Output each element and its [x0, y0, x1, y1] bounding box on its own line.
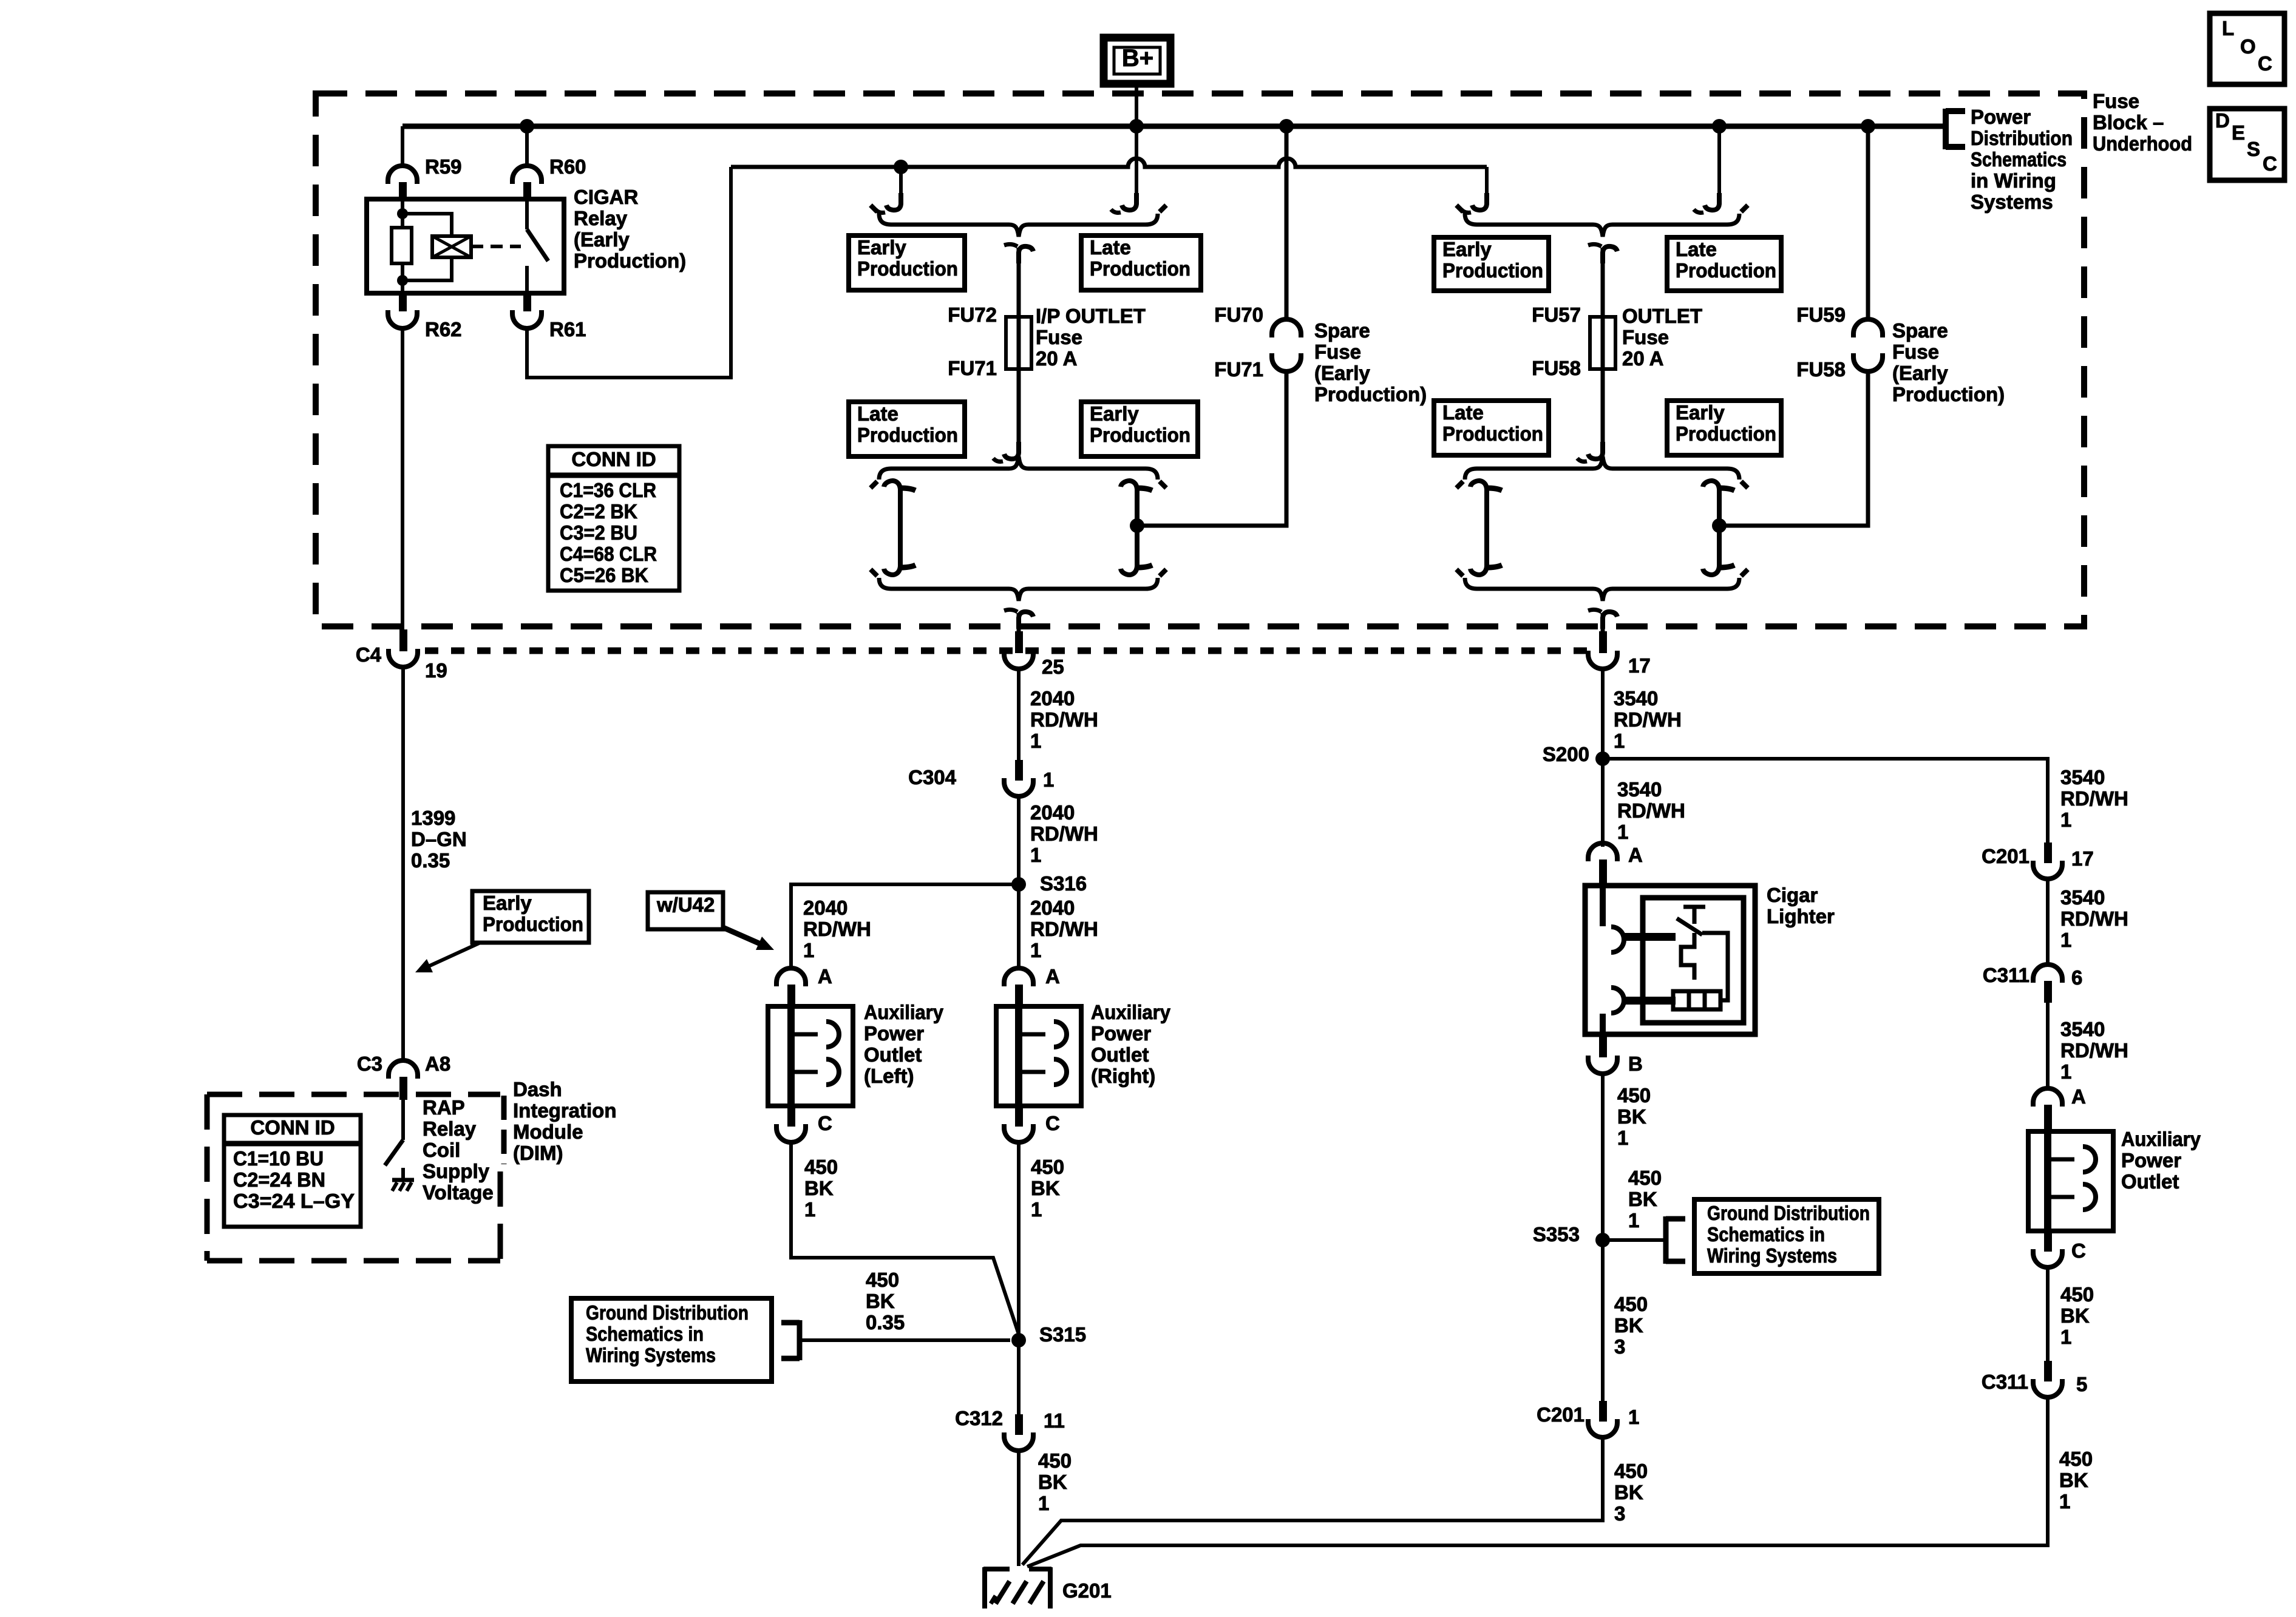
- svg-text:Fuse: Fuse: [1892, 341, 1939, 363]
- wire S353 to C201: [1601, 1240, 1605, 1401]
- wire C311 to outlet: [2046, 1003, 2050, 1088]
- svg-text:5: 5: [2076, 1373, 2087, 1395]
- svg-text:FU71: FU71: [948, 357, 997, 379]
- svg-text:BK: BK: [2059, 1469, 2088, 1491]
- fuse block underhood dashed border: [316, 93, 2084, 626]
- svg-text:Wiring Systems: Wiring Systems: [1707, 1244, 1837, 1267]
- svg-text:11: 11: [1044, 1409, 1065, 1432]
- svg-text:RD/WH: RD/WH: [1030, 822, 1098, 845]
- relay coil winding symbol: [432, 236, 471, 257]
- connector fuse block pin 17: [1599, 631, 1607, 653]
- svg-text:Production: Production: [1676, 422, 1776, 445]
- svg-text:BK: BK: [1617, 1105, 1646, 1128]
- svg-text:1: 1: [2060, 929, 2071, 951]
- svg-text:17: 17: [2071, 847, 2094, 870]
- junction coil top: [397, 208, 408, 219]
- svg-text:Production: Production: [1442, 259, 1543, 282]
- svg-text:(DIM): (DIM): [513, 1142, 563, 1164]
- svg-text:Early: Early: [1090, 402, 1139, 425]
- svg-text:Cigar: Cigar: [1767, 884, 1818, 906]
- svg-text:Fuse: Fuse: [2093, 90, 2139, 112]
- svg-text:B+: B+: [1122, 45, 1153, 72]
- svg-text:Dash: Dash: [513, 1078, 562, 1100]
- wire S200 to cigar lighter: [1601, 759, 1605, 847]
- wire C201 to C311: [2046, 880, 2050, 964]
- svg-text:BK: BK: [1031, 1177, 1060, 1199]
- svg-text:450: 450: [1628, 1167, 1662, 1189]
- svg-text:Production): Production): [1892, 383, 2005, 405]
- svg-text:(Early: (Early: [1892, 362, 1948, 384]
- svg-text:Systems: Systems: [1971, 191, 2053, 213]
- splice S315: [1011, 1333, 1026, 1347]
- svg-text:450: 450: [2059, 1448, 2093, 1470]
- svg-text:(Left): (Left): [864, 1065, 914, 1087]
- bracket DIM label: [501, 1096, 507, 1164]
- svg-text:C304: C304: [908, 766, 957, 788]
- svg-text:Outlet: Outlet: [864, 1043, 922, 1066]
- svg-text:A: A: [1628, 844, 1643, 866]
- svg-text:1: 1: [1031, 1198, 1042, 1221]
- wire C304 to S316: [1017, 797, 1021, 884]
- svg-text:RD/WH: RD/WH: [1617, 799, 1685, 822]
- svg-text:1: 1: [1628, 1406, 1639, 1428]
- svg-text:C1=36 CLR: C1=36 CLR: [560, 479, 656, 501]
- fuse output link: [1017, 369, 1021, 450]
- svg-text:C3: C3: [357, 1053, 382, 1075]
- svg-text:17: 17: [1628, 654, 1651, 677]
- svg-text:Production): Production): [1314, 383, 1427, 405]
- fuse block output link: [1603, 612, 1617, 629]
- svg-text:C311: C311: [1983, 964, 2029, 986]
- svg-text:E: E: [2232, 121, 2245, 144]
- connector R59: [388, 166, 417, 184]
- svg-text:2040: 2040: [803, 897, 847, 919]
- svg-text:Production: Production: [1090, 257, 1190, 280]
- svg-text:FU70: FU70: [1214, 303, 1263, 326]
- svg-text:Block –: Block –: [2093, 111, 2164, 134]
- svg-text:(Early: (Early: [574, 228, 630, 251]
- connector C left outlet: [787, 1106, 795, 1127]
- svg-text:C: C: [818, 1112, 832, 1134]
- auxiliary power outlet: [2028, 1131, 2113, 1231]
- svg-text:1: 1: [2059, 1490, 2070, 1513]
- option bar left: [1484, 486, 1489, 570]
- fuse feed link: [1603, 246, 1617, 263]
- svg-text:C2=24 BN: C2=24 BN: [233, 1168, 325, 1191]
- svg-text:R61: R61: [549, 318, 586, 341]
- callout Ground Distribution Schematics in Wiring Systems: [1694, 1199, 1879, 1273]
- svg-text:C5=26 BK: C5=26 BK: [560, 564, 648, 586]
- power feed B+ symbol: [1104, 38, 1170, 84]
- label Late Production option box lower: [849, 402, 965, 456]
- svg-text:FU57: FU57: [1532, 303, 1581, 326]
- svg-text:D–GN: D–GN: [411, 828, 467, 850]
- svg-text:450: 450: [1617, 1084, 1651, 1107]
- connector C304 pin 1: [1015, 760, 1023, 781]
- svg-text:C4=68 CLR: C4=68 CLR: [560, 543, 657, 565]
- svg-text:Production: Production: [857, 257, 958, 280]
- wire C201 to G201: [1022, 1438, 1603, 1565]
- svg-text:BK: BK: [804, 1177, 834, 1199]
- svg-text:3: 3: [1614, 1502, 1625, 1525]
- wire bus to relay R59: [401, 126, 404, 165]
- svg-text:Schematics in: Schematics in: [1707, 1223, 1825, 1246]
- option brace top: [1465, 214, 1739, 237]
- wire battery feed bus: [402, 124, 1946, 129]
- option bar right: [1135, 486, 1140, 570]
- svg-text:Outlet: Outlet: [2121, 1170, 2179, 1193]
- relay coil feed wire: [401, 199, 404, 228]
- auxiliary power outlet right: [996, 1006, 1081, 1106]
- svg-text:RD/WH: RD/WH: [2060, 787, 2128, 810]
- svg-text:Production): Production): [574, 249, 686, 272]
- svg-text:1: 1: [1614, 730, 1625, 752]
- wire left outlet ground to S315: [791, 1143, 1019, 1334]
- svg-text:450: 450: [1614, 1293, 1648, 1315]
- connector A auxiliary power outlet: [2033, 1088, 2062, 1107]
- connector boundary dotted line: [425, 648, 1588, 654]
- svg-text:6: 6: [2071, 966, 2082, 989]
- fuse FU57: [1590, 317, 1615, 369]
- svg-text:R59: R59: [425, 155, 462, 178]
- svg-text:0.35: 0.35: [411, 849, 450, 872]
- label Early Production option box lower: [1081, 402, 1198, 456]
- svg-text:Late: Late: [1676, 238, 1717, 260]
- svg-text:C: C: [2258, 52, 2272, 75]
- svg-text:Spare: Spare: [1892, 319, 1948, 342]
- wire drop to right fuse block early feed: [1485, 167, 1489, 202]
- svg-text:Early: Early: [857, 236, 906, 259]
- svg-text:450: 450: [2060, 1283, 2094, 1306]
- svg-text:1: 1: [1628, 1209, 1639, 1232]
- off-page bracket to Power Distribution: [1946, 109, 1965, 149]
- auxiliary power outlet left: [768, 1006, 853, 1106]
- svg-text:1: 1: [1043, 768, 1054, 791]
- svg-text:L: L: [2222, 17, 2234, 39]
- svg-text:A: A: [818, 965, 832, 988]
- svg-text:1399: 1399: [411, 807, 455, 829]
- fuse output link: [1601, 369, 1605, 450]
- svg-text:C4: C4: [356, 643, 382, 666]
- wire S316 to right outlet: [1017, 884, 1021, 968]
- svg-text:I/P OUTLET: I/P OUTLET: [1036, 305, 1146, 327]
- svg-text:Power: Power: [1971, 106, 2031, 128]
- svg-text:C: C: [2071, 1239, 2086, 1262]
- svg-text:Outlet: Outlet: [1091, 1043, 1149, 1066]
- wire 17 to S200: [1601, 670, 1605, 759]
- connector B cigar lighter: [1599, 1034, 1607, 1057]
- svg-text:BK: BK: [1038, 1471, 1067, 1493]
- svg-text:Production: Production: [1442, 422, 1543, 445]
- connector R61: [523, 293, 531, 311]
- svg-text:S315: S315: [1039, 1323, 1086, 1346]
- svg-text:S316: S316: [1040, 872, 1087, 895]
- wire C312 to G201: [1017, 1451, 1021, 1566]
- connector C4 pin 19: [399, 629, 407, 651]
- connector R60: [512, 166, 542, 184]
- junction coil bottom: [397, 275, 408, 286]
- wire S315 to C312: [1017, 1340, 1021, 1414]
- connector C312 pin 11: [1015, 1414, 1023, 1435]
- svg-text:CONN ID: CONN ID: [571, 448, 656, 470]
- label Early Production option box lower: [1667, 401, 1781, 455]
- svg-text:1: 1: [1038, 1492, 1049, 1514]
- svg-text:Production: Production: [1090, 424, 1190, 446]
- svg-text:Relay: Relay: [423, 1117, 477, 1140]
- svg-text:Late: Late: [857, 402, 898, 425]
- svg-text:RD/WH: RD/WH: [2060, 907, 2128, 930]
- svg-text:Auxiliary: Auxiliary: [1091, 1001, 1171, 1023]
- svg-text:S353: S353: [1533, 1223, 1580, 1246]
- option brace mid: [879, 456, 1158, 480]
- label Late Production option box lower: [1434, 401, 1549, 455]
- wire R61 switched output to bus2: [527, 167, 731, 378]
- wire drop to left fuse block early feed: [899, 167, 903, 202]
- wire bus drop to right fuse block late feed: [1717, 126, 1721, 202]
- connector C311 pin 5: [2044, 1361, 2052, 1381]
- relay CIGAR Relay box: [367, 199, 564, 293]
- svg-text:450: 450: [1031, 1156, 1064, 1178]
- svg-text:Coil: Coil: [423, 1139, 460, 1161]
- svg-text:w/U42: w/U42: [656, 893, 715, 916]
- svg-text:C: C: [2263, 152, 2277, 175]
- svg-text:Auxiliary: Auxiliary: [2121, 1128, 2201, 1150]
- svg-text:1: 1: [2060, 1326, 2071, 1348]
- connector A cigar lighter: [1588, 843, 1617, 861]
- svg-text:1: 1: [2060, 808, 2071, 831]
- svg-text:C3=24 L–GY: C3=24 L–GY: [233, 1190, 355, 1212]
- dashed actuation link: [471, 245, 521, 248]
- wire B+ drop to left fuse block late feed: [1135, 126, 1138, 202]
- svg-text:Schematics in: Schematics in: [586, 1323, 704, 1345]
- callout w/U42: [648, 892, 723, 929]
- svg-text:19: 19: [425, 659, 447, 682]
- wire S200 branch right: [1603, 759, 2048, 842]
- junction right fuse drop: [1712, 119, 1727, 134]
- arrow w/U42 callout: [723, 927, 764, 946]
- wire bus to spare fuse FU70: [1285, 126, 1289, 320]
- option brace bottom: [1465, 578, 1739, 601]
- svg-text:3540: 3540: [1617, 778, 1662, 801]
- svg-text:FU71: FU71: [1214, 358, 1263, 381]
- option bar left: [898, 486, 903, 570]
- svg-text:20 A: 20 A: [1036, 347, 1077, 370]
- connector C201 pin 1: [1599, 1401, 1607, 1422]
- connector C311 pin 6: [2033, 964, 2062, 983]
- wire R62 to C4: [401, 330, 404, 629]
- svg-text:BK: BK: [2060, 1304, 2090, 1327]
- svg-text:OUTLET: OUTLET: [1622, 305, 1702, 327]
- svg-text:3540: 3540: [2060, 1018, 2105, 1040]
- wire bus to spare fuse FU59: [1866, 126, 1870, 320]
- cigar lighter element internals: [1683, 907, 1705, 924]
- svg-text:25: 25: [1042, 656, 1064, 678]
- svg-text:Lighter: Lighter: [1767, 905, 1835, 927]
- wire C311 to G201: [1027, 1398, 2048, 1567]
- connector C3 pin A8: [389, 1060, 418, 1079]
- resistor relay coil suppression: [392, 228, 412, 263]
- connector A right outlet: [1004, 968, 1033, 986]
- connector A left outlet: [776, 968, 806, 986]
- svg-text:Wiring Systems: Wiring Systems: [586, 1344, 716, 1366]
- svg-text:C201: C201: [1537, 1403, 1584, 1426]
- connector C auxiliary power outlet: [2044, 1231, 2052, 1252]
- svg-text:Production: Production: [1676, 259, 1776, 282]
- svg-text:1: 1: [804, 1198, 815, 1221]
- svg-text:CONN ID: CONN ID: [250, 1116, 335, 1139]
- svg-text:Integration: Integration: [513, 1099, 617, 1122]
- svg-text:B: B: [1628, 1053, 1643, 1075]
- svg-text:A: A: [1045, 965, 1060, 988]
- svg-text:450: 450: [1614, 1460, 1648, 1482]
- svg-text:Early: Early: [1442, 238, 1492, 260]
- wire spare fuse to bar: [1137, 371, 1286, 526]
- option brace mid: [1465, 456, 1739, 480]
- option bar right: [1717, 486, 1722, 570]
- svg-text:RD/WH: RD/WH: [1614, 708, 1682, 731]
- cigar lighter inner unit box: [1643, 898, 1744, 1023]
- label Late Production option box: [1667, 237, 1781, 291]
- CONN ID table fuse block: [548, 446, 679, 591]
- svg-text:Power: Power: [864, 1022, 924, 1045]
- wire S353 to ground distribution callout: [1603, 1238, 1666, 1242]
- wire right outlet ground to S315: [1017, 1143, 1021, 1340]
- svg-text:Schematics: Schematics: [1971, 148, 2067, 171]
- CONN ID table DIM: [224, 1115, 361, 1227]
- svg-text:Late: Late: [1090, 236, 1131, 259]
- callout Early Production: [472, 891, 589, 943]
- svg-text:A8: A8: [425, 1053, 450, 1075]
- ground G201: [983, 1567, 1051, 1571]
- svg-text:in Wiring: in Wiring: [1971, 169, 2056, 192]
- wire callout to S315: [800, 1338, 1010, 1342]
- svg-text:R62: R62: [425, 318, 462, 341]
- LOC reference box: [2210, 13, 2284, 84]
- svg-text:C: C: [1045, 1112, 1060, 1134]
- connector fuse block pin 25: [1015, 631, 1023, 653]
- junction R60 feed: [520, 119, 534, 134]
- svg-text:BK: BK: [1614, 1314, 1643, 1337]
- svg-text:C1=10 BU: C1=10 BU: [233, 1147, 324, 1170]
- label Late Production option box: [1081, 236, 1201, 290]
- splice S353: [1595, 1233, 1610, 1247]
- cigar lighter feed contact: [1600, 886, 1606, 926]
- svg-text:1: 1: [1617, 1127, 1628, 1149]
- svg-text:2040: 2040: [1030, 801, 1075, 824]
- svg-text:FU72: FU72: [948, 303, 997, 326]
- wire C4 to DIM: [401, 668, 405, 1059]
- svg-text:(Right): (Right): [1091, 1065, 1155, 1087]
- label Early Production option box: [849, 236, 965, 290]
- connector C201 pin 17: [2044, 842, 2052, 863]
- wire 25 to C304: [1017, 670, 1021, 760]
- svg-text:Voltage: Voltage: [423, 1181, 494, 1204]
- RAP relay coil switch: [401, 1100, 405, 1140]
- wire B+ to bus: [1135, 84, 1138, 126]
- option brace top: [879, 214, 1158, 237]
- svg-text:Fuse: Fuse: [1314, 341, 1361, 363]
- svg-text:Early: Early: [483, 892, 532, 914]
- svg-text:450: 450: [804, 1156, 838, 1178]
- fuse FU72: [1006, 317, 1031, 369]
- svg-text:R60: R60: [549, 155, 586, 178]
- svg-text:RD/WH: RD/WH: [803, 918, 871, 940]
- fuse feed link: [1019, 246, 1033, 263]
- svg-text:Power: Power: [1091, 1022, 1151, 1045]
- svg-text:D: D: [2215, 109, 2230, 132]
- bracket ground distribution callout: [781, 1320, 800, 1360]
- svg-text:450: 450: [1038, 1449, 1072, 1472]
- svg-text:RD/WH: RD/WH: [1030, 708, 1098, 731]
- svg-text:1: 1: [1030, 939, 1041, 961]
- svg-text:3: 3: [1614, 1335, 1625, 1358]
- svg-text:1: 1: [803, 939, 814, 961]
- svg-text:Fuse: Fuse: [1036, 326, 1082, 348]
- wire B to S353: [1601, 1074, 1605, 1240]
- svg-text:Module: Module: [513, 1120, 583, 1143]
- svg-text:Production: Production: [857, 424, 958, 446]
- svg-text:450: 450: [866, 1269, 899, 1291]
- svg-text:Ground Distribution: Ground Distribution: [1707, 1202, 1870, 1224]
- junction left fuse drop: [894, 160, 908, 174]
- svg-text:C312: C312: [955, 1407, 1003, 1429]
- svg-text:1: 1: [1617, 821, 1628, 843]
- svg-text:O: O: [2240, 35, 2256, 58]
- connector C right outlet: [1015, 1106, 1023, 1127]
- svg-text:A: A: [2071, 1085, 2086, 1108]
- svg-text:BK: BK: [866, 1290, 895, 1312]
- cigar lighter outer box: [1585, 886, 1755, 1034]
- spare fuse FU59/FU58 terminals: [1853, 319, 1883, 337]
- svg-text:Relay: Relay: [574, 207, 628, 229]
- splice S316: [1011, 877, 1026, 892]
- svg-text:Late: Late: [1442, 401, 1484, 424]
- svg-text:3540: 3540: [1614, 687, 1658, 710]
- bracket ground distribution callout right: [1666, 1216, 1685, 1264]
- svg-text:BK: BK: [1628, 1188, 1657, 1210]
- fuse block output link: [1019, 612, 1033, 629]
- svg-text:CIGAR: CIGAR: [574, 186, 639, 208]
- arrow Early Production callout: [425, 943, 480, 968]
- DESC reference box: [2210, 109, 2284, 180]
- svg-text:C3=2 BU: C3=2 BU: [560, 521, 637, 544]
- wire switched feed bus: [731, 158, 1487, 167]
- label Early Production option box: [1434, 237, 1549, 291]
- svg-text:Production: Production: [483, 913, 583, 935]
- wire S316 branch to left outlet: [791, 884, 1019, 968]
- svg-text:BK: BK: [1614, 1481, 1643, 1503]
- svg-text:20 A: 20 A: [1622, 347, 1663, 370]
- svg-text:RD/WH: RD/WH: [1030, 918, 1098, 940]
- svg-text:Supply: Supply: [423, 1160, 490, 1182]
- cigar lighter ground contact: [1611, 988, 1624, 1013]
- svg-text:Auxiliary: Auxiliary: [864, 1001, 944, 1023]
- svg-text:2040: 2040: [1030, 897, 1075, 919]
- svg-text:G201: G201: [1062, 1579, 1112, 1602]
- junction spare fuse FU59 drop: [1861, 119, 1875, 134]
- dash integration module dashed box: [207, 1092, 500, 1097]
- connector R62: [399, 293, 407, 311]
- junction spare to option bar: [1712, 518, 1727, 533]
- svg-text:C311: C311: [1982, 1371, 2028, 1393]
- svg-text:Distribution: Distribution: [1971, 127, 2073, 149]
- junction B+ drop: [1129, 119, 1144, 134]
- svg-text:FU59: FU59: [1796, 303, 1846, 326]
- svg-text:1: 1: [1030, 844, 1041, 866]
- svg-text:Spare: Spare: [1314, 319, 1370, 342]
- svg-text:S: S: [2247, 138, 2260, 160]
- svg-text:FU58: FU58: [1796, 358, 1846, 381]
